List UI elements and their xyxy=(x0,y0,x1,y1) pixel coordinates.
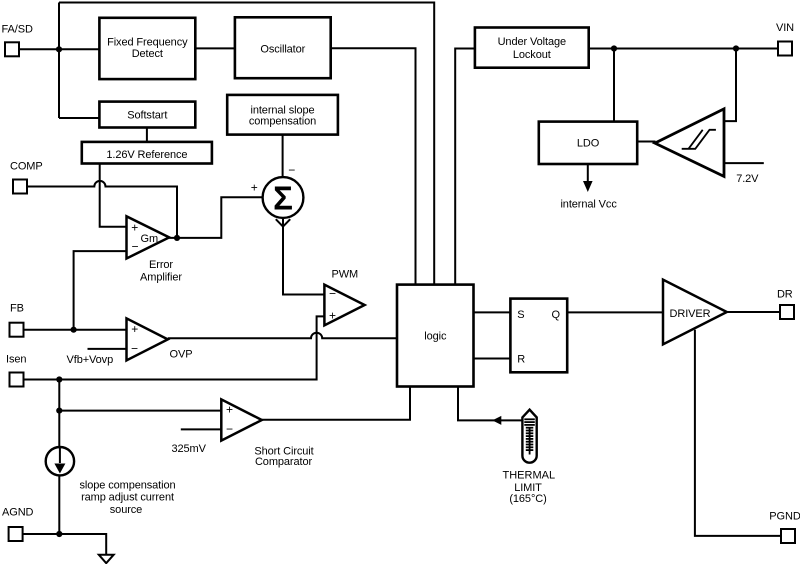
svg-text:Under Voltage: Under Voltage xyxy=(498,36,566,48)
svg-text:logic: logic xyxy=(424,330,447,342)
svg-text:Fixed Frequency: Fixed Frequency xyxy=(107,36,188,48)
svg-text:7.2V: 7.2V xyxy=(736,173,759,185)
svg-text:−: − xyxy=(131,342,138,356)
svg-text:1.26V Reference: 1.26V Reference xyxy=(106,149,187,161)
svg-text:THERMAL: THERMAL xyxy=(503,469,556,481)
svg-text:−: − xyxy=(226,422,233,436)
svg-text:Vfb+Vovp: Vfb+Vovp xyxy=(67,354,114,366)
svg-text:source: source xyxy=(110,504,142,516)
svg-text:Lockout: Lockout xyxy=(513,49,551,61)
svg-text:−: − xyxy=(131,240,138,254)
svg-text:325mV: 325mV xyxy=(172,443,207,455)
svg-text:LDO: LDO xyxy=(577,138,600,150)
svg-text:Detect: Detect xyxy=(132,48,163,60)
svg-text:FB: FB xyxy=(10,303,24,315)
svg-text:VIN: VIN xyxy=(776,22,794,34)
svg-text:Q: Q xyxy=(552,309,561,321)
svg-text:FA/SD: FA/SD xyxy=(2,24,33,36)
svg-text:+: + xyxy=(251,181,258,195)
svg-text:slope compensation: slope compensation xyxy=(79,479,175,491)
svg-text:R: R xyxy=(517,353,525,365)
svg-text:Softstart: Softstart xyxy=(127,110,167,122)
svg-text:+: + xyxy=(131,322,138,336)
svg-text:+: + xyxy=(131,220,138,234)
svg-text:Comparator: Comparator xyxy=(255,456,313,468)
svg-text:PGND: PGND xyxy=(769,510,800,522)
svg-text:Isen: Isen xyxy=(6,353,26,365)
svg-text:DRIVER: DRIVER xyxy=(670,308,711,320)
svg-text:Gm: Gm xyxy=(141,233,159,245)
svg-text:Oscillator: Oscillator xyxy=(260,43,305,55)
svg-text:internal Vcc: internal Vcc xyxy=(560,198,617,210)
svg-text:PWM: PWM xyxy=(332,268,359,280)
svg-text:LIMIT: LIMIT xyxy=(514,482,542,494)
svg-text:Σ: Σ xyxy=(273,180,293,217)
svg-text:(165°C): (165°C) xyxy=(509,493,546,505)
svg-text:Amplifier: Amplifier xyxy=(140,271,182,283)
svg-text:AGND: AGND xyxy=(2,507,34,519)
svg-text:COMP: COMP xyxy=(10,161,43,173)
svg-text:ramp adjust current: ramp adjust current xyxy=(81,491,174,503)
svg-text:−: − xyxy=(329,286,336,300)
svg-text:compensation: compensation xyxy=(249,116,316,128)
svg-text:Error: Error xyxy=(149,259,173,271)
svg-text:OVP: OVP xyxy=(170,349,193,361)
svg-text:−: − xyxy=(288,163,295,177)
svg-text:internal slope: internal slope xyxy=(250,104,314,116)
svg-text:S: S xyxy=(517,309,524,321)
svg-text:+: + xyxy=(226,403,233,417)
svg-text:+: + xyxy=(329,308,336,322)
svg-text:DR: DR xyxy=(777,289,793,301)
